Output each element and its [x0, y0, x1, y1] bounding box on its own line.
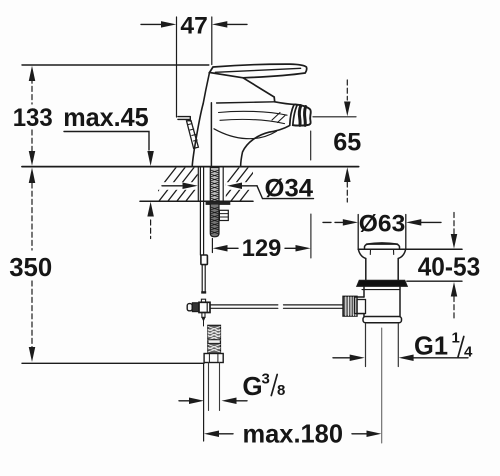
- drain tailpipe thread extension lines: [365, 324, 367, 367]
- rod clamp left knob: [187, 304, 192, 311]
- drain neck: [358, 250, 365, 281]
- dimension 65 upper: [346, 80, 348, 100]
- washer under counter: [206, 202, 231, 205]
- threaded stud below counter: [210, 205, 219, 237]
- spout hatch ticks: [272, 113, 285, 123]
- faucet body left edge: [192, 104, 203, 167]
- dimension 133 vertical line: [31, 70, 33, 104]
- svg-text:129: 129: [242, 235, 281, 262]
- horizontal pop-up rod segment 1: [210, 304, 278, 306]
- knurled screw on drain lever: [343, 296, 357, 316]
- collar between knurl and drain body: [357, 300, 366, 314]
- faucet body center contour: [210, 103, 212, 167]
- reference line bottom of 350 at supply connector: [22, 362, 204, 364]
- spout outlet projection line: [310, 131, 312, 160]
- G3/8 threaded stud: [208, 325, 221, 353]
- drain Ø63 extension lines: [357, 215, 359, 250]
- max.45 lower arrow pointing up at counter underside: [147, 202, 154, 217]
- aerator dark band 2: [303, 107, 307, 126]
- pull rod knob at rear: [178, 117, 190, 121]
- faucet center extension line down to max180: [203, 363, 205, 441]
- spout shading line 1: [219, 111, 288, 115]
- aerator cap outline: [293, 104, 311, 125]
- Ø34 leader elbow and underline: [257, 186, 314, 199]
- dimension 129: [211, 239, 213, 253]
- flange top reference line extended: [407, 280, 462, 282]
- pull rod lower section: [201, 265, 203, 292]
- drain neck inner ticks: [369, 250, 371, 255]
- drain flange black band: [357, 280, 407, 286]
- dimension 40-53 lower: [451, 282, 458, 297]
- drain center line: [381, 328, 383, 443]
- label G1 1/4: [414, 330, 473, 361]
- faucet lever handle: [210, 64, 307, 78]
- dimension G1 1/4 arrows: [333, 357, 350, 359]
- svg-text:G1: G1: [414, 331, 448, 361]
- svg-text:Ø63: Ø63: [359, 211, 406, 238]
- drain bottom rim: [363, 317, 402, 323]
- dimension max.180: [204, 431, 219, 438]
- svg-text:max.180: max.180: [243, 419, 344, 449]
- svg-text:1: 1: [452, 330, 460, 347]
- aerator dark band 1: [299, 106, 300, 126]
- max.45 leader underline: [64, 132, 149, 151]
- faucet dome bottom joint: [217, 102, 275, 103]
- aerator joint rings: [290, 105, 294, 125]
- spout shading line 2: [220, 119, 285, 123]
- svg-text:350: 350: [9, 252, 52, 282]
- pull rod through counter: [199, 167, 201, 255]
- rod lower stub pointed: [202, 313, 205, 318]
- dimension 350 vertical line: [31, 183, 33, 250]
- counter bottom line: [140, 200, 253, 202]
- faucet neck right edge: [243, 78, 275, 102]
- svg-text:3: 3: [262, 371, 270, 388]
- svg-text:Ø34: Ø34: [265, 175, 314, 203]
- label G3/8: [242, 371, 285, 402]
- svg-text:47: 47: [180, 12, 207, 39]
- spout inner contour: [214, 129, 277, 139]
- pull rod shaft hatched strip: [187, 121, 199, 149]
- 65 reference tick at aerator: [313, 116, 356, 118]
- drain body spigot: [355, 297, 365, 314]
- drain seat line: [358, 248, 462, 250]
- faucet neck left edge: [203, 73, 209, 104]
- svg-text:8: 8: [277, 382, 285, 399]
- dimension Ø63 arrows: [323, 221, 343, 223]
- svg-text:40-53: 40-53: [418, 252, 481, 282]
- pull rod coupling: [201, 255, 208, 265]
- G3/8 hex nut: [204, 354, 223, 363]
- svg-text:max.45: max.45: [63, 102, 149, 132]
- dimension 47 extension line left: [176, 17, 178, 117]
- faucet lever top face inner line: [215, 68, 300, 72]
- drain plug cap: [365, 244, 400, 249]
- dimension 40-53 upper: [453, 213, 455, 235]
- rod clamp body: [199, 302, 210, 312]
- reference line top of faucet: [22, 64, 209, 66]
- dimension 65 lower arrow: [344, 167, 351, 182]
- horizontal pop-up rod segment 2: [284, 304, 344, 306]
- dimension 47 arrows: [141, 23, 161, 25]
- shank outer tube through counter: [197, 167, 199, 201]
- dimension G3/8 arrows: [179, 400, 189, 402]
- dimension Ø34 arrows: [162, 185, 182, 187]
- faucet spout top edge: [275, 102, 296, 105]
- svg-text:G: G: [242, 371, 262, 401]
- svg-text:65: 65: [333, 129, 361, 157]
- rod clamp left block: [192, 303, 198, 312]
- white halo along dimension arrows through hatch: [149, 182, 198, 190]
- threaded shank band: [210, 167, 219, 201]
- counter hatch: [149, 168, 266, 202]
- counter top line: [22, 166, 359, 168]
- spout underside: [241, 125, 290, 166]
- G3/8 tube lines: [208, 363, 210, 411]
- dimension 47 extension line right: [211, 17, 213, 65]
- clamp nut on stud: [219, 210, 228, 220]
- svg-text:4: 4: [464, 344, 473, 361]
- rod clamp top collar: [201, 299, 205, 302]
- drain body: [364, 287, 400, 317]
- svg-text:133: 133: [13, 104, 53, 132]
